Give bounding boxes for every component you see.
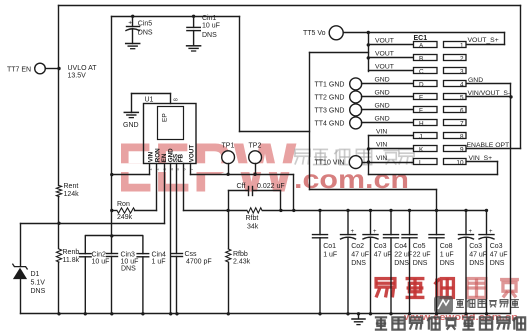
- svg-text:L: L: [419, 159, 423, 166]
- svg-text:Co8: Co8: [440, 243, 453, 250]
- svg-text:K: K: [419, 146, 424, 153]
- svg-text:4: 4: [460, 81, 464, 88]
- svg-text:TT4 GND: TT4 GND: [315, 120, 345, 127]
- pin 2: [444, 55, 467, 61]
- svg-text:EP: EP: [162, 113, 169, 122]
- svg-text:Cin4: Cin4: [152, 252, 167, 259]
- svg-text:DNS: DNS: [121, 266, 136, 273]
- wire EN to divider: [59, 223, 165, 225]
- svg-text:+: +: [128, 20, 132, 27]
- svg-text:D1: D1: [31, 271, 40, 278]
- pin 6: [444, 107, 467, 113]
- wire VOUT row B: [369, 57, 413, 59]
- wire input rail left (Cin3 branch): [111, 17, 113, 254]
- capacitor Cin1: [192, 15, 195, 18]
- svg-text:DNS: DNS: [469, 260, 484, 267]
- svg-text:TT10 VIN: TT10 VIN: [315, 160, 345, 167]
- test point TT1 GND: [350, 78, 362, 90]
- wire GND row 3: [362, 109, 413, 111]
- svg-text:VOUT: VOUT: [188, 145, 195, 163]
- pin C: [414, 68, 438, 74]
- svg-text:10: 10: [456, 159, 464, 166]
- svg-text:F: F: [419, 107, 423, 114]
- svg-text:47 uF: 47 uF: [374, 252, 392, 259]
- svg-text:D: D: [419, 81, 424, 88]
- svg-text:1 uF: 1 uF: [323, 252, 337, 259]
- pin 10: [444, 159, 467, 165]
- wire pin1 VOUT_S+: [466, 44, 505, 46]
- svg-text:Co4: Co4: [394, 243, 407, 250]
- wire SS pin down: [176, 164, 178, 254]
- wire FB rail: [184, 210, 247, 212]
- wire VOUT to TPs: [191, 174, 294, 176]
- pin A: [414, 42, 438, 48]
- capacitor Co3 at x=370.5: [370, 210, 372, 234]
- svg-text:DNS: DNS: [202, 32, 217, 39]
- test point TT4 GND: [350, 117, 362, 129]
- svg-text:Renb: Renb: [63, 249, 80, 256]
- wire VIN row L: [363, 162, 413, 164]
- wire left rail upper: [58, 6, 60, 186]
- svg-text:VIN_S+: VIN_S+: [469, 155, 493, 162]
- capacitor Co1 at x=320: [319, 210, 321, 234]
- svg-text:47 uF: 47 uF: [490, 252, 508, 259]
- svg-text:DNS: DNS: [394, 260, 409, 267]
- svg-text:124k: 124k: [64, 191, 80, 198]
- svg-text:GND: GND: [375, 116, 390, 123]
- svg-text:+: +: [469, 229, 473, 235]
- wire EN pin stub: [164, 164, 166, 224]
- capacitor Cin3 plates: [107, 253, 118, 255]
- pin K: [414, 146, 438, 152]
- svg-text:VIN: VIN: [376, 129, 387, 136]
- pin D: [414, 81, 438, 87]
- svg-text:Co3: Co3: [490, 243, 503, 250]
- wire VOUT rail: [263, 210, 487, 212]
- svg-text:Cin5: Cin5: [138, 20, 153, 27]
- svg-text:H: H: [419, 120, 424, 127]
- svg-text:U1: U1: [145, 97, 154, 104]
- svg-text:Rent: Rent: [64, 183, 79, 190]
- wire VIN row K: [369, 148, 413, 150]
- svg-text:+: +: [489, 229, 493, 235]
- svg-text:VOUT_S+: VOUT_S+: [468, 37, 499, 44]
- wire VOUT row A: [369, 44, 413, 46]
- svg-text:11.8k: 11.8k: [63, 257, 80, 264]
- svg-text:Co3: Co3: [469, 243, 482, 250]
- capacitor Cin2: [84, 236, 86, 254]
- pin 3: [444, 68, 467, 74]
- svg-text:Css: Css: [185, 251, 198, 258]
- svg-text:GND: GND: [468, 77, 483, 84]
- svg-text:UVLO AT: UVLO AT: [68, 65, 98, 72]
- svg-text:Cin2: Cin2: [92, 252, 107, 259]
- wire D1 top lead: [20, 224, 22, 267]
- wire left rail middle: [58, 197, 60, 249]
- wire VOUT_S+ top: [369, 32, 505, 34]
- svg-text:Co2: Co2: [351, 243, 364, 250]
- svg-text:TP2: TP2: [249, 143, 262, 150]
- wire pin9 ENABLE OPT: [466, 148, 521, 150]
- watermark 易迪拓培训: [376, 279, 395, 298]
- svg-text:VIN/VOUT_S-: VIN/VOUT_S-: [468, 90, 511, 97]
- wire VOUT left column: [309, 53, 311, 190]
- wire GND pin down: [170, 164, 172, 314]
- pin B: [414, 55, 438, 61]
- wire VOUT pin stub: [190, 164, 192, 175]
- svg-text:13.5V: 13.5V: [68, 73, 87, 80]
- test point TP1: [222, 151, 235, 164]
- svg-text:3: 3: [460, 68, 464, 75]
- svg-text:GND: GND: [375, 103, 390, 110]
- svg-text:2.43k: 2.43k: [233, 259, 251, 266]
- pin 5: [444, 94, 467, 100]
- capacitor Co3 at x=466: [465, 210, 467, 234]
- pin 1: [444, 42, 467, 48]
- node EN/UVLO junction: [57, 222, 60, 225]
- watermark eeworld logo: [434, 296, 453, 313]
- svg-text:5: 5: [460, 94, 464, 101]
- svg-text:DNS: DNS: [138, 29, 153, 36]
- svg-text:9: 9: [460, 146, 464, 153]
- wire VOUT bottom branch: [310, 189, 437, 191]
- svg-text:6: 6: [460, 107, 464, 114]
- resistor Ron: [117, 208, 135, 213]
- capacitor Cff: [228, 191, 230, 211]
- ground Cin1: [187, 45, 201, 47]
- svg-text:GND: GND: [375, 90, 390, 97]
- svg-text:8: 8: [174, 98, 180, 101]
- svg-text:47 uF: 47 uF: [469, 252, 487, 259]
- svg-text:10 uF: 10 uF: [121, 259, 139, 266]
- wire to EC1 column: [240, 131, 310, 133]
- svg-text:C: C: [419, 68, 424, 75]
- wire VOUT row C: [369, 70, 413, 72]
- svg-text:Cin3: Cin3: [121, 252, 136, 259]
- pin 8: [444, 133, 467, 139]
- svg-text:249k: 249k: [117, 214, 133, 221]
- wire TT7 to rail: [46, 68, 59, 70]
- wire pin8 to GND: [132, 93, 171, 95]
- svg-text:22 uF: 22 uF: [413, 252, 431, 259]
- capacitor Co2 at x=348: [347, 210, 349, 234]
- svg-text:Co1: Co1: [323, 243, 336, 250]
- watermark 射频和天线设计专家: [375, 317, 387, 329]
- wire VIN top rail: [59, 5, 521, 7]
- svg-text:DNS: DNS: [440, 260, 455, 267]
- svg-text:TT3 GND: TT3 GND: [315, 107, 345, 114]
- pin 9: [444, 146, 467, 152]
- wire VOUT corner down: [293, 175, 295, 211]
- U1 EP pad: [158, 107, 184, 140]
- wire VIN pin stub: [149, 164, 151, 175]
- pin 4: [444, 81, 467, 87]
- svg-text:DNS: DNS: [413, 260, 428, 267]
- svg-text:VOUT: VOUT: [375, 64, 394, 71]
- svg-text:TT1 GND: TT1 GND: [315, 81, 345, 88]
- test point TT3 GND: [350, 104, 362, 116]
- capacitor Cin5: [131, 15, 134, 18]
- svg-text:+: +: [373, 229, 377, 235]
- wire EN node to D1: [21, 223, 59, 225]
- wire VIN pin to rail: [112, 174, 150, 176]
- ground Cin5: [126, 43, 140, 45]
- wire Ron left: [112, 210, 117, 212]
- resistor Rfbt: [247, 208, 262, 213]
- svg-text:FB: FB: [178, 153, 185, 162]
- svg-text:1: 1: [460, 42, 464, 49]
- capacitor Cin4: [142, 236, 144, 254]
- capacitor Co3 at x=486.5: [486, 210, 488, 234]
- wire bottom ground rail: [21, 313, 511, 315]
- svg-text:5.1V: 5.1V: [31, 280, 46, 287]
- svg-text:VOUT: VOUT: [375, 38, 394, 45]
- svg-text:GND: GND: [375, 77, 390, 84]
- svg-text:+: +: [351, 229, 355, 235]
- wire pin5 VIN/VOUT_S-: [466, 96, 511, 98]
- svg-text:DNS: DNS: [31, 288, 46, 295]
- svg-text:8: 8: [460, 133, 464, 140]
- svg-text:47 uF: 47 uF: [351, 252, 369, 259]
- capacitor Co8 at x=436.5: [436, 210, 438, 234]
- wire VIN row J: [369, 135, 413, 137]
- ground U1: [124, 111, 138, 113]
- svg-text:VIN: VIN: [376, 155, 387, 162]
- wire Ron right: [135, 210, 157, 212]
- svg-text:0.022 uF: 0.022 uF: [257, 183, 285, 190]
- svg-text:7: 7: [460, 120, 464, 127]
- pin E: [414, 94, 438, 100]
- pin 7: [444, 120, 467, 126]
- wire GND row 1: [362, 83, 413, 85]
- test point TT5 Vo: [329, 26, 343, 40]
- svg-text:Co5: Co5: [413, 243, 426, 250]
- wire GND drop to rail: [510, 84, 512, 314]
- svg-text:ENABLE OPT: ENABLE OPT: [467, 142, 510, 149]
- wire VIN_S+ bottom: [369, 174, 498, 176]
- watermark EEPW logo: [114, 129, 525, 330]
- wire GND row 4: [362, 122, 413, 124]
- wire RON pin stub: [156, 164, 158, 211]
- svg-text:10 uF: 10 uF: [92, 259, 110, 266]
- wire D1 bottom lead: [20, 279, 22, 314]
- capacitor Co4 at x=391: [390, 210, 392, 234]
- wire Cin2-Cin4 bus: [86, 235, 143, 237]
- svg-text:2: 2: [460, 55, 464, 62]
- svg-text:VIN: VIN: [376, 142, 387, 149]
- svg-text:DNS: DNS: [351, 260, 366, 267]
- wire pin10 VIN_S+: [466, 161, 498, 163]
- test point TT10 VIN: [349, 156, 362, 169]
- wire input box right: [239, 17, 241, 132]
- svg-text:J: J: [419, 133, 422, 140]
- svg-text:A: A: [419, 42, 424, 49]
- wire pin4 GND out: [466, 83, 511, 85]
- wire VOUT into rail: [436, 190, 438, 211]
- zener diode D1: [14, 269, 26, 279]
- svg-text:TT7 EN: TT7 EN: [7, 67, 31, 74]
- svg-text:4700 pF: 4700 pF: [186, 259, 212, 266]
- wire TT5 to junction: [344, 32, 369, 34]
- wire pin8 stub: [170, 94, 172, 104]
- wire VOUT column: [368, 33, 370, 72]
- svg-text:Cff: Cff: [237, 183, 246, 190]
- wire input box top: [112, 16, 240, 18]
- test point TT7 EN: [35, 63, 46, 74]
- pin J: [414, 133, 438, 139]
- svg-text:VOUT: VOUT: [375, 51, 394, 58]
- svg-text:TT5 Vo: TT5 Vo: [303, 30, 326, 37]
- svg-text:TT2 GND: TT2 GND: [315, 94, 345, 101]
- svg-text:E: E: [419, 94, 423, 101]
- svg-text:Cin1: Cin1: [202, 15, 217, 22]
- wire VIN column: [368, 136, 370, 175]
- resistor Rfbb: [228, 211, 230, 249]
- resistor Renb: [56, 249, 61, 262]
- svg-text:Rfbb: Rfbb: [233, 251, 248, 258]
- capacitor Co5 at x=409.5: [409, 210, 411, 234]
- svg-text:1 uF: 1 uF: [440, 252, 454, 259]
- test point TP2: [249, 151, 262, 164]
- wire VOUT branch left: [310, 52, 369, 54]
- watermark gray chinese 電子產品世界: [295, 149, 310, 164]
- svg-text:Ron: Ron: [117, 201, 130, 208]
- svg-text:10 uF: 10 uF: [202, 23, 220, 30]
- wire Cin3 bottom lead: [111, 257, 113, 314]
- svg-text:DNS: DNS: [490, 260, 505, 267]
- pin H: [414, 120, 438, 126]
- ground output rail: [358, 314, 360, 319]
- svg-text:TP1: TP1: [222, 143, 235, 150]
- pin L: [414, 159, 438, 165]
- svg-text:GND: GND: [123, 122, 139, 129]
- svg-text:B: B: [419, 55, 423, 62]
- svg-text:Co3: Co3: [374, 243, 387, 250]
- svg-text:34k: 34k: [247, 224, 259, 231]
- test point TT2 GND: [350, 91, 362, 103]
- wire GND row 2: [362, 96, 413, 98]
- wire left rail lower: [58, 263, 60, 314]
- wire gnd stem: [131, 94, 133, 113]
- wire FB pin stub: [183, 164, 185, 211]
- svg-text:Rfbt: Rfbt: [246, 215, 259, 222]
- resistor Rent: [56, 186, 61, 197]
- wire enable drop right: [520, 6, 522, 149]
- svg-text:1 uF: 1 uF: [152, 259, 166, 266]
- pin F: [414, 107, 438, 113]
